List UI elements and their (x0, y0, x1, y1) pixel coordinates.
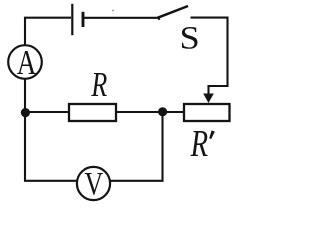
node: left junction dot (21, 108, 30, 117)
voltmeter V: circle (77, 167, 110, 200)
wire: rheostat left terminal to right node (161, 111, 184, 113)
svg-text:R: R (90, 64, 107, 104)
battery cell: short thick plate (82, 12, 85, 27)
svg-text:A: A (17, 43, 37, 82)
node: right junction dot (158, 107, 167, 116)
wire: ammeter bottom to left node (24, 79, 26, 112)
wire: switch right contact, right side down and jog to wiper (191, 18, 228, 86)
resistor R box (69, 104, 116, 121)
rheostat R' box (184, 104, 230, 121)
rheostat wiper arrowhead (203, 94, 214, 104)
svg-text:V: V (85, 167, 104, 202)
ammeter A: circle (8, 45, 42, 79)
battery cell: long plate (71, 4, 73, 35)
scan speck (112, 10, 114, 12)
label R' prime mark (209, 130, 215, 139)
wire: left node to resistor R left lead (25, 111, 69, 113)
wire: battery to switch pivot (84, 18, 160, 20)
wire: resistor R right lead to right node (116, 111, 162, 113)
svg-text:S: S (179, 20, 199, 56)
wire: left node down and bottom wire to voltmeter (25, 112, 77, 181)
switch S: blade (open) (158, 6, 189, 18)
svg-text:R: R (190, 123, 208, 165)
rheostat wiper arrow shaft (207, 85, 209, 96)
wire: left vertical from ammeter up and top wire to battery (25, 18, 71, 46)
wire: voltmeter right to bottom-right corner up to right node (110, 112, 162, 181)
